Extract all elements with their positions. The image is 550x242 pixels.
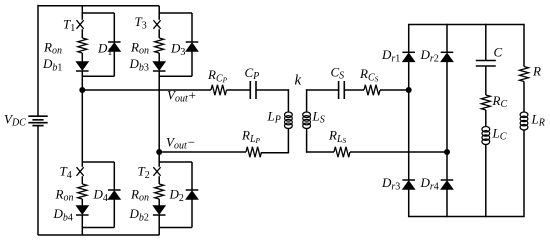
capacitor CP bbox=[250, 81, 256, 99]
svg-text:RC: RC bbox=[492, 93, 508, 110]
diode Db2 bbox=[153, 206, 166, 216]
wire: RLS to rectifier input b bbox=[350, 151, 447, 153]
wire: LP to RLP corner bbox=[287, 128, 289, 153]
wire: LC to bottom rail bbox=[485, 144, 487, 217]
diode Dr4 bbox=[441, 180, 454, 190]
diode D2 bbox=[186, 190, 199, 200]
wire: node to T2 leg bbox=[158, 152, 160, 162]
diode D1 bbox=[108, 42, 121, 52]
wire: node a down to Dr3 bbox=[408, 90, 410, 180]
wire: D2 branch to T2 leg (bottom) bbox=[159, 227, 192, 229]
diode Dr2 bbox=[441, 52, 454, 62]
diode D3 bbox=[186, 42, 199, 52]
svg-text:Dr2: Dr2 bbox=[420, 47, 439, 65]
wire: T3 leg above switch bbox=[158, 13, 160, 20]
resistor RCS bbox=[364, 85, 380, 95]
diode Db3 bbox=[153, 62, 166, 72]
wire: LS up to CS line bbox=[306, 89, 308, 112]
wire: Dr4 to bottom rail bbox=[446, 190, 448, 218]
wire: RLP to LP bottom bbox=[262, 152, 290, 154]
svg-text:T4: T4 bbox=[60, 164, 72, 182]
resistor Ron of T4 bbox=[78, 184, 87, 199]
wire: Dr3 to bottom rail bbox=[408, 190, 410, 218]
wire: D4 branch upper bbox=[113, 162, 115, 190]
svg-text:LS: LS bbox=[312, 109, 325, 126]
wire: CS to RCS bbox=[344, 89, 364, 91]
wire: Dr2 to node b bbox=[446, 62, 448, 152]
svg-text:Db1: Db1 bbox=[42, 56, 62, 74]
diode Db1 bbox=[76, 62, 89, 72]
diode D4 bbox=[108, 190, 121, 200]
wire: T1 leg above switch bbox=[81, 13, 83, 20]
svg-text:Ron: Ron bbox=[55, 187, 74, 204]
svg-text:Ron: Ron bbox=[130, 187, 149, 204]
node Vout- junction bbox=[156, 149, 162, 155]
svg-text:Db4: Db4 bbox=[53, 206, 73, 224]
wire: T3 leg down to Vout- node bbox=[158, 90, 160, 152]
diode Db4 bbox=[76, 206, 89, 216]
switch T3 bbox=[153, 20, 160, 29]
wire: D4 branch lower bbox=[113, 200, 115, 228]
wire: D3 branch upper bbox=[191, 13, 193, 42]
svg-text:D3: D3 bbox=[170, 41, 185, 59]
wire: rail to T3 leg bbox=[158, 6, 160, 13]
wire: T4 leg output bbox=[81, 215, 83, 235]
svg-text:CS: CS bbox=[331, 65, 345, 82]
svg-text:Vout−: Vout− bbox=[166, 135, 196, 152]
svg-text:LC: LC bbox=[492, 126, 507, 143]
wire: D3 branch to T3 leg (bottom) bbox=[159, 75, 192, 77]
svg-text:T3: T3 bbox=[135, 14, 147, 32]
wire: top rail to Dr1 bbox=[408, 24, 410, 53]
wire: D2 branch upper bbox=[191, 162, 193, 190]
svg-text:Dr4: Dr4 bbox=[420, 175, 439, 193]
svg-text:VDC: VDC bbox=[4, 112, 26, 129]
node rectifier input a bbox=[406, 87, 412, 93]
inductor LP bbox=[285, 112, 293, 129]
svg-text:Ron: Ron bbox=[43, 40, 62, 57]
wire: D1 branch to T1 leg (bottom) bbox=[82, 75, 114, 77]
wire: node b down to Dr4 bbox=[446, 152, 448, 180]
resistor RLS bbox=[334, 147, 350, 157]
resistor RLP bbox=[246, 147, 262, 157]
svg-text:RCP: RCP bbox=[207, 67, 228, 85]
wire: LS to CS bbox=[306, 89, 339, 91]
wire: T1 leg output bbox=[81, 71, 83, 91]
svg-text:D4: D4 bbox=[93, 187, 108, 205]
resistor R bbox=[520, 67, 529, 82]
svg-text:Db2: Db2 bbox=[129, 206, 149, 224]
wire: T2 leg to D2 branch (top) bbox=[159, 161, 192, 163]
capacitor CS bbox=[339, 81, 345, 99]
resistor RC bbox=[481, 95, 490, 110]
svg-text:k: k bbox=[295, 73, 302, 89]
battery VDC bbox=[28, 116, 47, 125]
wire: T4 leg above switch bbox=[81, 162, 83, 167]
resistor Ron of T1 bbox=[78, 38, 87, 53]
wire: C to RC bbox=[485, 66, 487, 95]
wire: D1 branch lower bbox=[113, 52, 115, 77]
node Vout+ junction bbox=[79, 87, 85, 93]
wire: Dr1 to node a bbox=[408, 62, 410, 90]
svg-text:C: C bbox=[494, 45, 503, 60]
wire: top rail to Dr2 bbox=[446, 24, 448, 53]
svg-text:LR: LR bbox=[531, 112, 545, 129]
svg-text:RLS: RLS bbox=[328, 128, 347, 146]
switch T2 bbox=[153, 167, 160, 176]
wire: T2 leg between Ron and Db2 bbox=[158, 199, 160, 206]
diode Dr3 bbox=[402, 180, 415, 190]
wire: T1 leg below switch bbox=[81, 29, 83, 38]
wire: T3 leg between Ron and Db3 bbox=[158, 53, 160, 62]
wire: Vout+ line to RCP bbox=[82, 89, 211, 91]
wire: T2 leg output bbox=[158, 215, 160, 235]
wire: T3 leg output bbox=[158, 71, 160, 90]
switch T1 bbox=[77, 20, 84, 29]
resistor Ron of T2 bbox=[155, 184, 164, 199]
wire: T3 leg below switch bbox=[158, 29, 160, 38]
svg-text:Dr3: Dr3 bbox=[381, 175, 400, 193]
svg-text:T2: T2 bbox=[138, 164, 150, 182]
wire: CP to LP corner bbox=[256, 89, 289, 91]
wire: node to T4 leg bbox=[81, 90, 83, 162]
inductor LR bbox=[520, 112, 528, 130]
wire: T1 leg between Ron and Db1 bbox=[81, 53, 83, 62]
svg-text:LP: LP bbox=[267, 109, 281, 126]
capacitor C bbox=[476, 61, 496, 67]
wire: top supply rail bbox=[38, 5, 159, 7]
wire: T2 leg below switch bbox=[158, 176, 160, 184]
wire: rail to T1 leg bbox=[81, 6, 83, 13]
svg-text:RCS: RCS bbox=[359, 66, 379, 84]
wire: VDC positive lead bbox=[37, 5, 39, 116]
wire: top rail to C bbox=[485, 24, 487, 61]
inductor LS bbox=[303, 112, 311, 129]
wire: RCP to CP bbox=[227, 89, 251, 91]
wire: D3 branch lower bbox=[191, 52, 193, 77]
svg-text:RLP: RLP bbox=[241, 128, 261, 146]
node rectifier input b bbox=[444, 149, 450, 155]
wire: T1 leg to D1 branch (top) bbox=[82, 12, 114, 14]
wire: LS down to RLS line bbox=[306, 128, 308, 153]
wire: RCS to rectifier input bbox=[380, 89, 409, 91]
wire: T4 leg to D4 branch (top) bbox=[82, 161, 114, 163]
wire: top rail to R bbox=[523, 24, 525, 67]
resistor Ron of T3 bbox=[155, 38, 164, 53]
wire: D1 branch upper bbox=[113, 13, 115, 42]
wire: corner down to LP bbox=[287, 89, 289, 112]
wire: Vout- line to RLP bbox=[159, 151, 246, 153]
svg-text:D2: D2 bbox=[169, 187, 184, 205]
svg-text:T1: T1 bbox=[63, 17, 75, 35]
wire: LS to RLS bbox=[306, 151, 334, 153]
svg-text:Db3: Db3 bbox=[129, 56, 149, 74]
wire: D4 branch to T4 leg (bottom) bbox=[82, 227, 114, 229]
svg-text:R: R bbox=[532, 64, 541, 79]
svg-text:D1: D1 bbox=[97, 41, 112, 59]
diode Dr1 bbox=[402, 52, 415, 62]
wire: T4 leg below switch bbox=[81, 176, 83, 184]
wire: VDC negative lead bbox=[37, 126, 39, 236]
wire: bottom supply rail bbox=[38, 234, 159, 236]
switch T4 bbox=[77, 167, 84, 176]
resistor RCP bbox=[211, 85, 227, 95]
wire: RC to LC bbox=[485, 110, 487, 127]
wire: T4 leg between Ron and Db4 bbox=[81, 199, 83, 206]
wire: T3 leg to D3 branch (top) bbox=[159, 12, 192, 14]
wire: rectifier bottom rail bbox=[409, 216, 524, 218]
svg-text:Dr1: Dr1 bbox=[381, 47, 400, 65]
wire: R to LR bbox=[523, 82, 525, 113]
inductor LC bbox=[482, 127, 490, 145]
wire: T2 leg above switch bbox=[158, 162, 160, 167]
wire: D2 branch lower bbox=[191, 200, 193, 228]
wire: LR to bottom rail bbox=[523, 130, 525, 218]
wire: rectifier top rail bbox=[409, 24, 524, 26]
svg-text:Ron: Ron bbox=[130, 40, 149, 57]
svg-text:CP: CP bbox=[245, 65, 260, 82]
